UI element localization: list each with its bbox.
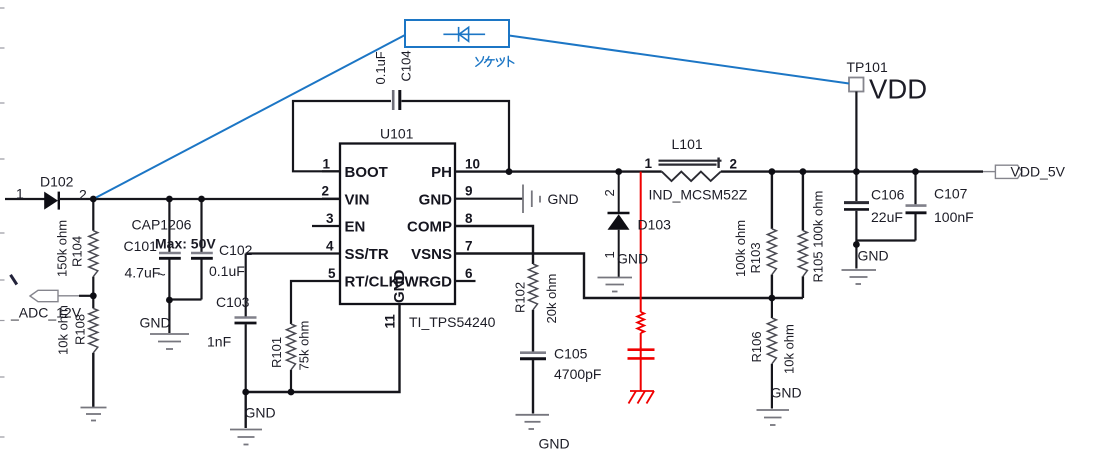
svg-text:R102: R102: [513, 282, 528, 313]
wire SS/TR: [246, 252, 340, 254]
svg-text:R101: R101: [269, 337, 284, 368]
svg-text:D102: D102: [40, 174, 74, 190]
svg-text:22uF: 22uF: [871, 209, 903, 225]
ground C106 C107: [842, 270, 877, 284]
svg-text:C101: C101: [124, 238, 158, 254]
svg-text:GND: GND: [771, 385, 802, 401]
svg-text:1: 1: [602, 251, 617, 258]
svg-text:GND: GND: [245, 405, 276, 421]
svg-text:R103: R103: [748, 242, 763, 273]
svg-text:GND: GND: [539, 436, 570, 452]
svg-text:BOOT: BOOT: [345, 164, 388, 181]
svg-text:U101: U101: [380, 126, 414, 142]
svg-text:8: 8: [465, 211, 473, 226]
svg-text:2: 2: [79, 187, 87, 203]
svg-text:D103: D103: [638, 217, 672, 233]
svg-text:5: 5: [328, 266, 336, 281]
diode D102: [44, 192, 59, 210]
resistor R103: [767, 172, 776, 299]
socket box blue: [405, 20, 509, 47]
wire pin 8 COMP: [455, 226, 533, 264]
wire red tap: [640, 172, 642, 312]
capacitor C106: [844, 172, 869, 269]
svg-text:20k ohm: 20k ohm: [544, 274, 559, 324]
svg-text:EN: EN: [345, 219, 366, 236]
svg-text:C107: C107: [934, 186, 968, 202]
svg-text:C105: C105: [554, 346, 588, 362]
red snubber net: [628, 172, 655, 404]
svg-text:0.1uF: 0.1uF: [373, 51, 388, 84]
wire: [640, 333, 642, 348]
op-amp U101 (regulator IC box): [340, 144, 455, 305]
wire pin 7 VSNS feedback: [455, 254, 803, 299]
inductor L101: [659, 158, 722, 182]
svg-text:2: 2: [730, 157, 738, 172]
svg-text:11: 11: [383, 314, 398, 329]
ground below R108: [81, 408, 107, 421]
wire to ground C101: [168, 300, 170, 333]
svg-text:R108: R108: [73, 314, 88, 345]
resistor R104: [89, 199, 98, 296]
svg-text:1: 1: [645, 156, 653, 171]
ground pin9 rotated: [523, 185, 540, 214]
test point TP101: [849, 78, 864, 172]
capacitor C101: [159, 199, 181, 300]
resistor R101: [287, 324, 296, 392]
capacitor C104: [393, 90, 400, 110]
wire RT/CLK: [291, 281, 340, 324]
svg-text:6: 6: [465, 266, 473, 281]
SHEET: [0, 8, 5, 437]
svg-text:1nF: 1nF: [207, 334, 231, 350]
svg-text:PH: PH: [431, 164, 452, 181]
svg-text:4.7uF: 4.7uF: [125, 265, 161, 281]
svg-text:GND: GND: [140, 315, 171, 331]
wire PH rail after L101: [721, 170, 983, 172]
svg-text:GND: GND: [548, 191, 579, 207]
wire to ground pin11: [244, 392, 246, 428]
svg-text:_ADC_12V: _ADC_12V: [10, 305, 82, 321]
svg-text:GND: GND: [419, 191, 453, 208]
ground C105: [516, 415, 550, 429]
socket label katakana: [476, 56, 514, 66]
svg-text:VSNS: VSNS: [411, 246, 452, 263]
resistor R108: [89, 296, 98, 408]
svg-text:9: 9: [465, 184, 473, 199]
svg-text:VDD_5V: VDD_5V: [1011, 164, 1066, 180]
svg-text:GND: GND: [617, 251, 648, 267]
svg-text:150k ohm: 150k ohm: [55, 220, 70, 277]
svg-text:10: 10: [465, 157, 480, 172]
svg-text:1: 1: [16, 186, 24, 202]
wire VIN rail: [59, 198, 340, 200]
wire EN stub: [312, 225, 340, 227]
svg-text:TI_TPS54240: TI_TPS54240: [409, 314, 496, 330]
svg-text:75k ohm: 75k ohm: [297, 321, 312, 371]
svg-text:C103: C103: [216, 294, 250, 310]
wire VIN rail left: [5, 198, 45, 200]
svg-text:0.1uF: 0.1uF: [209, 263, 245, 279]
svg-text:SS/TR: SS/TR: [345, 246, 389, 263]
svg-text:R105 100k ohm: R105 100k ohm: [811, 191, 826, 283]
svg-text:CAP1206: CAP1206: [132, 217, 192, 233]
wire pin 6 stub: [455, 280, 476, 282]
ground pin11: [230, 430, 262, 445]
ground D103: [598, 278, 633, 292]
wire pin 9 GND: [455, 198, 523, 200]
svg-text:4: 4: [326, 239, 334, 254]
svg-text:IND_MCSM52Z: IND_MCSM52Z: [649, 187, 748, 203]
svg-text:10k ohm: 10k ohm: [56, 305, 71, 355]
pin 1 stub: [322, 170, 340, 172]
chassis ground red: [630, 390, 654, 392]
ground C101 C102: [150, 334, 189, 349]
sheet mark: [11, 275, 17, 285]
svg-text:~: ~: [158, 267, 166, 283]
svg-text:C106: C106: [871, 187, 905, 203]
wire BOOT loop: [293, 101, 509, 172]
svg-text:C104: C104: [399, 50, 414, 81]
svg-text:4700pF: 4700pF: [554, 366, 601, 382]
svg-text:Max: 50V: Max: 50V: [155, 236, 216, 252]
capacitor red snubber: [628, 348, 655, 351]
svg-text:VDD: VDD: [869, 74, 927, 105]
pin 2 stub: [322, 198, 340, 200]
svg-text:3: 3: [326, 211, 334, 226]
svg-text:1: 1: [323, 157, 331, 172]
svg-text:10k ohm: 10k ohm: [782, 324, 797, 374]
svg-text:R106: R106: [749, 331, 764, 362]
connector _ADC_12V: [30, 290, 93, 301]
resistor R105: [798, 172, 807, 298]
svg-text:R104: R104: [70, 236, 85, 267]
pin 10 wire PH rail: [455, 170, 662, 172]
svg-text:GND: GND: [858, 248, 889, 264]
wire blue left: [93, 35, 405, 199]
resistor R102: [529, 264, 538, 352]
diode D103: [608, 172, 630, 277]
wire: [640, 347, 642, 391]
wire pin11 ground run: [246, 304, 400, 392]
wire blue right: [509, 36, 849, 84]
svg-text:L101: L101: [672, 136, 703, 152]
svg-text:GND: GND: [391, 270, 408, 304]
resistor red snubber: [637, 312, 644, 333]
resistor R106: [767, 299, 776, 409]
svg-text:7: 7: [465, 239, 473, 254]
svg-text:100k ohm: 100k ohm: [733, 220, 748, 277]
svg-text:VIN: VIN: [345, 191, 370, 208]
capacitor C103: [235, 254, 257, 393]
svg-text:2: 2: [322, 184, 330, 199]
svg-text:100nF: 100nF: [934, 209, 974, 225]
diode inside socket: [443, 27, 485, 42]
capacitor C107: [856, 172, 926, 241]
connector VDD_5V: [983, 165, 1022, 178]
ground R106: [757, 410, 790, 425]
svg-text:C102: C102: [219, 242, 253, 258]
capacitor C105: [520, 353, 546, 414]
capacitor C102: [169, 199, 212, 300]
svg-text:2: 2: [602, 189, 617, 196]
svg-text:COMP: COMP: [407, 219, 452, 236]
